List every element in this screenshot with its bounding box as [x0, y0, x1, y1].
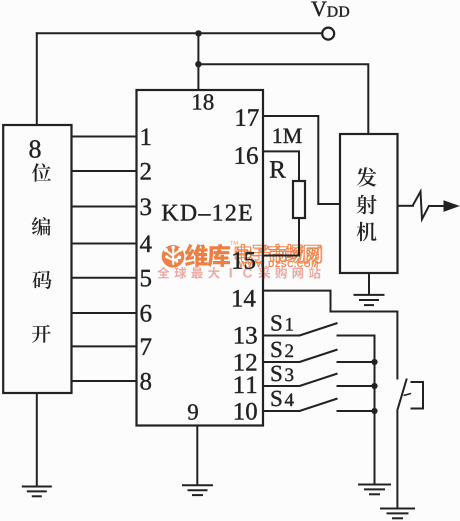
wire pin 14 to push button: [263, 291, 397, 312]
wire pin 11 stub: [263, 385, 300, 387]
label 射: [357, 195, 377, 215]
wire button upper: [396, 311, 398, 380]
pin label 16: [236, 147, 258, 164]
wire pin 17 to transmitter: [263, 116, 340, 204]
pin label 5: [141, 270, 151, 287]
wire encoder to pin 5: [71, 277, 138, 279]
switch S1 blade: [300, 323, 338, 336]
ground (switch bus): [358, 484, 391, 486]
switch S4 blade: [300, 399, 338, 412]
pin label 1: [142, 129, 151, 146]
wire encoder to pin 7: [71, 345, 138, 347]
pin label 14: [233, 290, 255, 307]
wire switch bus: [374, 335, 376, 486]
encoder box: [3, 125, 71, 393]
wire S1 contact: [337, 335, 376, 337]
junction switch bus: [371, 359, 377, 365]
push button link dash: [404, 394, 412, 396]
wire antenna lead: [428, 205, 445, 207]
resistor R body: [293, 181, 305, 218]
transmitter box: [340, 134, 398, 273]
terminal VDD: [322, 28, 334, 40]
wire encoder to pin 6: [71, 312, 138, 314]
wire encoder to pin 1: [71, 136, 138, 138]
junction switch bus: [371, 408, 377, 414]
wire S4 contact: [337, 410, 376, 412]
label 8 (encoder): [30, 140, 41, 158]
label 1M: [274, 129, 302, 144]
push button actuator: [411, 382, 424, 409]
wire VDD to pin 18: [197, 33, 199, 91]
ground (encoder): [22, 486, 52, 488]
wire encoder to pin 8: [71, 380, 138, 382]
wire encoder to pin 4: [71, 243, 138, 245]
ground (pin 9): [182, 484, 213, 486]
pin label 12: [235, 354, 256, 371]
pin label 7: [141, 339, 151, 355]
antenna break symbol: [413, 192, 429, 220]
wire pin 12 stub: [263, 361, 300, 363]
wire button lower: [396, 410, 398, 510]
label S2: [272, 342, 282, 357]
wire VDD branch to transmitter: [198, 64, 368, 134]
antenna arrow: [444, 200, 460, 212]
wire S3 contact: [337, 385, 376, 387]
ground (button): [380, 508, 415, 510]
pin label 4: [140, 236, 152, 253]
wire resistor to pin 15: [263, 218, 299, 256]
wire VDD rail: [36, 32, 322, 34]
label 开: [32, 325, 51, 343]
wire pin 16 to resistor: [263, 151, 299, 181]
wire VDD to encoder: [36, 32, 38, 126]
junction node B: [195, 61, 201, 67]
pin label 6: [141, 305, 152, 322]
label 发: [357, 167, 377, 187]
label 码: [33, 271, 52, 289]
label 编: [32, 217, 51, 236]
wire encoder to pin 3: [71, 206, 138, 208]
pin label 10: [235, 403, 257, 420]
pin label 18: [193, 94, 213, 110]
watermark logo: [157, 241, 322, 279]
wire pin 10 stub: [263, 410, 300, 412]
label R: [270, 161, 286, 177]
wire pin 13 stub: [263, 335, 300, 337]
pin label 9: [188, 404, 198, 419]
pin label 8: [141, 373, 152, 390]
label 机: [357, 222, 377, 242]
pin label 11: [235, 377, 256, 394]
label KD-12E: [162, 205, 252, 221]
junction node A: [195, 30, 201, 36]
pin label 13: [235, 327, 257, 344]
pin label 3: [141, 198, 151, 215]
label S1: [272, 315, 282, 330]
wire S2 contact: [337, 361, 376, 363]
switch S2 blade: [300, 350, 338, 363]
label S4: [272, 391, 282, 406]
switch S3 blade: [300, 374, 338, 387]
label S3: [272, 366, 282, 381]
wire encoder to ground: [36, 393, 38, 487]
wire antenna feed: [398, 205, 414, 207]
wire pin 9 to ground: [196, 426, 198, 486]
IC U1 KD-12E body: [137, 90, 264, 426]
label 位: [32, 163, 51, 182]
wire transmitter to ground: [368, 273, 370, 295]
pin label 2: [141, 163, 151, 180]
wire encoder to pin 2: [71, 170, 138, 172]
junction switch bus: [371, 383, 377, 389]
pin label 17: [237, 109, 259, 126]
label VDD: [311, 2, 326, 17]
pin label 15: [233, 252, 255, 269]
push button blade: [397, 379, 406, 411]
ground (transmitter): [354, 294, 385, 296]
